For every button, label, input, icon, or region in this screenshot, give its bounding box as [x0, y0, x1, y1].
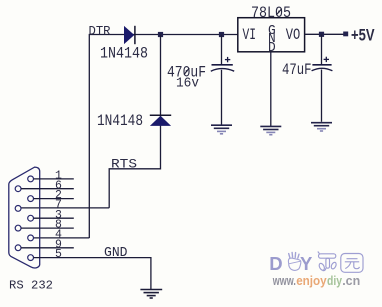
svg-text:16v: 16v [176, 76, 199, 92]
ground G1 [211, 125, 232, 134]
svg-text:1N4148: 1N4148 [97, 112, 143, 130]
svg-text:Y: Y [300, 253, 313, 274]
wire J2 down to C1 [221, 35, 223, 65]
svg-text:1N4148: 1N4148 [100, 44, 148, 62]
watermark chinese char le (乐) [318, 252, 337, 272]
wire top rail DTR-diode-VI [89, 35, 238, 239]
svg-text:47uF: 47uF [282, 61, 312, 79]
wire U1 GND pin down [270, 52, 272, 126]
svg-text:GND: GND [104, 246, 128, 261]
node junction J3 [319, 32, 324, 37]
diode D2 1N4148 [150, 115, 171, 126]
connector DB9 outline [9, 167, 40, 268]
wire pin6 stub [21, 188, 74, 190]
watermark chinese char yuan (园) [341, 254, 363, 273]
capacitor C1 470uF [211, 57, 234, 71]
ground G2 [260, 126, 281, 134]
svg-text:D: D [268, 41, 276, 56]
svg-text:www.: www. [272, 274, 296, 288]
connector pin circles left column 6,7,8,9 [15, 186, 21, 192]
wire J1 down to diode D2 and RTS corner [109, 35, 160, 208]
wire C1 to ground [221, 70, 223, 125]
svg-text:VO: VO [286, 26, 301, 44]
svg-text:diy: diy [327, 274, 342, 288]
svg-text:D: D [269, 253, 282, 274]
wire J3 down to C2 [321, 34, 323, 64]
slashed zero in 78L05 [276, 9, 282, 15]
node terminal +5V square [343, 32, 348, 37]
svg-text:5: 5 [55, 248, 62, 261]
wire pin8 stub [21, 227, 74, 229]
ground G3 [311, 123, 332, 131]
wire pin7 stub RTS [21, 207, 109, 209]
svg-text:78L05: 78L05 [251, 4, 291, 22]
ground G4 [140, 290, 162, 299]
svg-text:+5V: +5V [351, 27, 375, 45]
svg-text:RTS: RTS [111, 157, 137, 172]
node junction J1 [158, 32, 163, 37]
wire GND net pin5 [34, 258, 151, 289]
svg-text:VI: VI [243, 26, 257, 44]
watermark hand symbol [288, 252, 300, 270]
wire pin1 stub [34, 178, 74, 180]
watermark url www.enjoydiy.cn [272, 274, 360, 288]
wire pin2 stub [34, 198, 74, 200]
diode D1 1N4148 [124, 26, 135, 44]
wire VO to +5V terminal [305, 33, 344, 35]
svg-text:DTR: DTR [89, 23, 111, 38]
svg-text:enjoy: enjoy [296, 274, 327, 288]
svg-text:RS 232: RS 232 [9, 279, 53, 292]
IC U1 78L05 box [238, 18, 305, 52]
wire pin3 stub [34, 217, 74, 219]
connector pin circles right column 1,2,3,4,5 [28, 176, 34, 182]
wire pin9 stub [21, 247, 74, 249]
slashed zero in 470uF [184, 68, 189, 75]
wire pin4 stub to DTR [34, 237, 90, 239]
svg-text:.cn: .cn [342, 274, 360, 288]
node junction J2 [219, 32, 224, 37]
capacitor C2 47uF [312, 57, 333, 71]
wire C2 to ground [321, 70, 323, 122]
